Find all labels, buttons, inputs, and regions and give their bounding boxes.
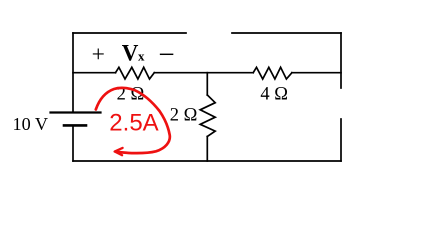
mesh current arrowhead [115, 148, 123, 155]
battery V1 short plate (-) [64, 124, 86, 127]
svg-text:10 V: 10 V [13, 114, 49, 134]
svg-text:4 Ω: 4 Ω [260, 85, 288, 105]
wire middle horizontal right of R3 [292, 72, 341, 74]
svg-text:2 Ω: 2 Ω [170, 105, 198, 125]
svg-text:+: + [92, 42, 105, 68]
wire left vertical below battery [72, 125, 74, 161]
svg-text:−: − [158, 39, 174, 71]
resistor R1 2 ohm zigzag [116, 67, 155, 79]
wire bottom [73, 160, 341, 162]
svg-text:2.5A: 2.5A [109, 110, 158, 137]
svg-text:V: V [122, 40, 139, 65]
mesh current loop arrow (red) [96, 88, 170, 153]
battery V1 long plate (+) [51, 111, 101, 113]
wire middle branch lower [206, 137, 208, 162]
wire top-left segment [73, 32, 186, 34]
wire right vertical lower (open stub) [340, 119, 342, 161]
wire right vertical upper (open stub) [340, 33, 342, 88]
wire middle branch upper [206, 73, 208, 95]
wire top-right segment [232, 32, 341, 34]
resistor R2 2 ohm vertical zigzag [200, 95, 215, 137]
wire left vertical (top node to battery +) [72, 33, 74, 112]
wire middle horizontal left of R1 [73, 72, 116, 74]
wire middle horizontal between R1 and R3 [154, 72, 253, 74]
svg-text:x: x [138, 49, 145, 64]
resistor R3 4 ohm zigzag [253, 67, 292, 79]
